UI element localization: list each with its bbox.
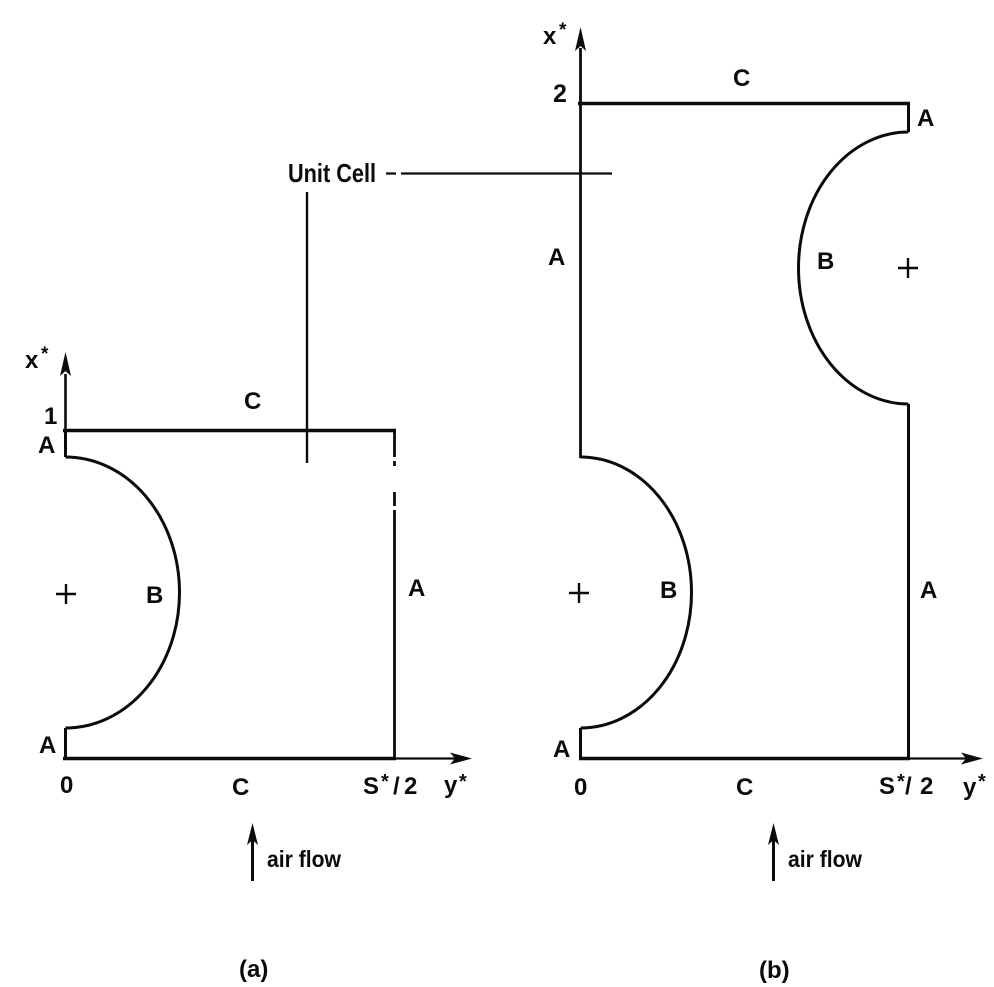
svg-text:B: B [817,248,834,275]
boundary C bottom (a) [63,757,396,761]
y-axis (a) [396,757,462,759]
tube centre mark + left (b) [569,583,589,603]
svg-text:2: 2 [404,773,417,800]
svg-text:*: * [897,771,905,793]
svg-text:*: * [559,20,567,41]
svg-text:*: * [978,771,986,793]
boundary C top (a) [63,429,396,433]
svg-text:y: y [963,774,977,801]
tube wall arc B (a) [66,457,180,728]
boundary C top (b) [578,102,910,106]
svg-text:A: A [917,105,934,132]
svg-text:A: A [553,736,570,763]
svg-text:A: A [920,577,937,604]
svg-text:1: 1 [44,403,57,430]
boundary A left lower (a) [64,728,67,759]
svg-text:A: A [408,575,425,602]
svg-text:(b): (b) [759,957,790,984]
svg-text:*: * [41,344,49,365]
x-axis arrowhead (a) [60,352,71,376]
svg-text:0: 0 [60,772,73,799]
boundary A right upper (b) [907,103,910,132]
svg-text:C: C [733,65,750,92]
y-axis (b) [910,757,972,759]
air flow arrow (a) [251,838,254,881]
svg-text:A: A [38,432,55,459]
svg-text:y: y [444,772,458,799]
tube centre mark + right (b) [898,258,918,278]
svg-text:*: * [381,771,389,793]
svg-text:S: S [879,773,895,800]
Unit Cell pointer line [386,172,612,174]
svg-text:air flow: air flow [788,846,862,872]
tube wall arc B right (b) [798,132,908,404]
svg-text:Unit Cell: Unit Cell [288,158,376,188]
svg-text:2: 2 [553,80,567,108]
x-axis arrowhead (b) [575,27,586,51]
tube centre mark + (a) [56,584,76,604]
svg-text:A: A [548,244,565,271]
y-axis arrowhead (b) [961,753,983,765]
svg-text:x: x [543,23,557,50]
boundary A left upper (a) [64,430,67,457]
Unit Cell vertical line [306,192,308,463]
x-axis (a) [64,374,67,430]
svg-text:S: S [363,773,379,800]
svg-text:0: 0 [574,774,587,801]
svg-text:A: A [39,732,56,759]
svg-text:B: B [146,582,163,609]
svg-text:air flow: air flow [267,846,341,872]
svg-text:C: C [232,774,249,801]
svg-text:C: C [736,774,753,801]
y-axis arrowhead (a) [450,753,472,765]
boundary C bottom (b) [579,757,910,761]
svg-text:*: * [459,771,467,793]
air flow arrow (b) [772,838,775,881]
svg-text:x: x [25,347,39,374]
boundary A right lower (b) [907,404,910,759]
svg-text:/: / [905,773,912,800]
x-axis (b) [579,48,582,458]
svg-text:C: C [244,388,261,415]
boundary A right dashed (a) [393,429,396,759]
svg-text:B: B [660,577,677,604]
svg-text:/: / [393,773,400,800]
svg-text:(a): (a) [239,956,268,983]
boundary A left lower (b) [579,728,582,759]
svg-text:2: 2 [920,773,933,800]
tube wall arc B left (b) [581,457,692,728]
